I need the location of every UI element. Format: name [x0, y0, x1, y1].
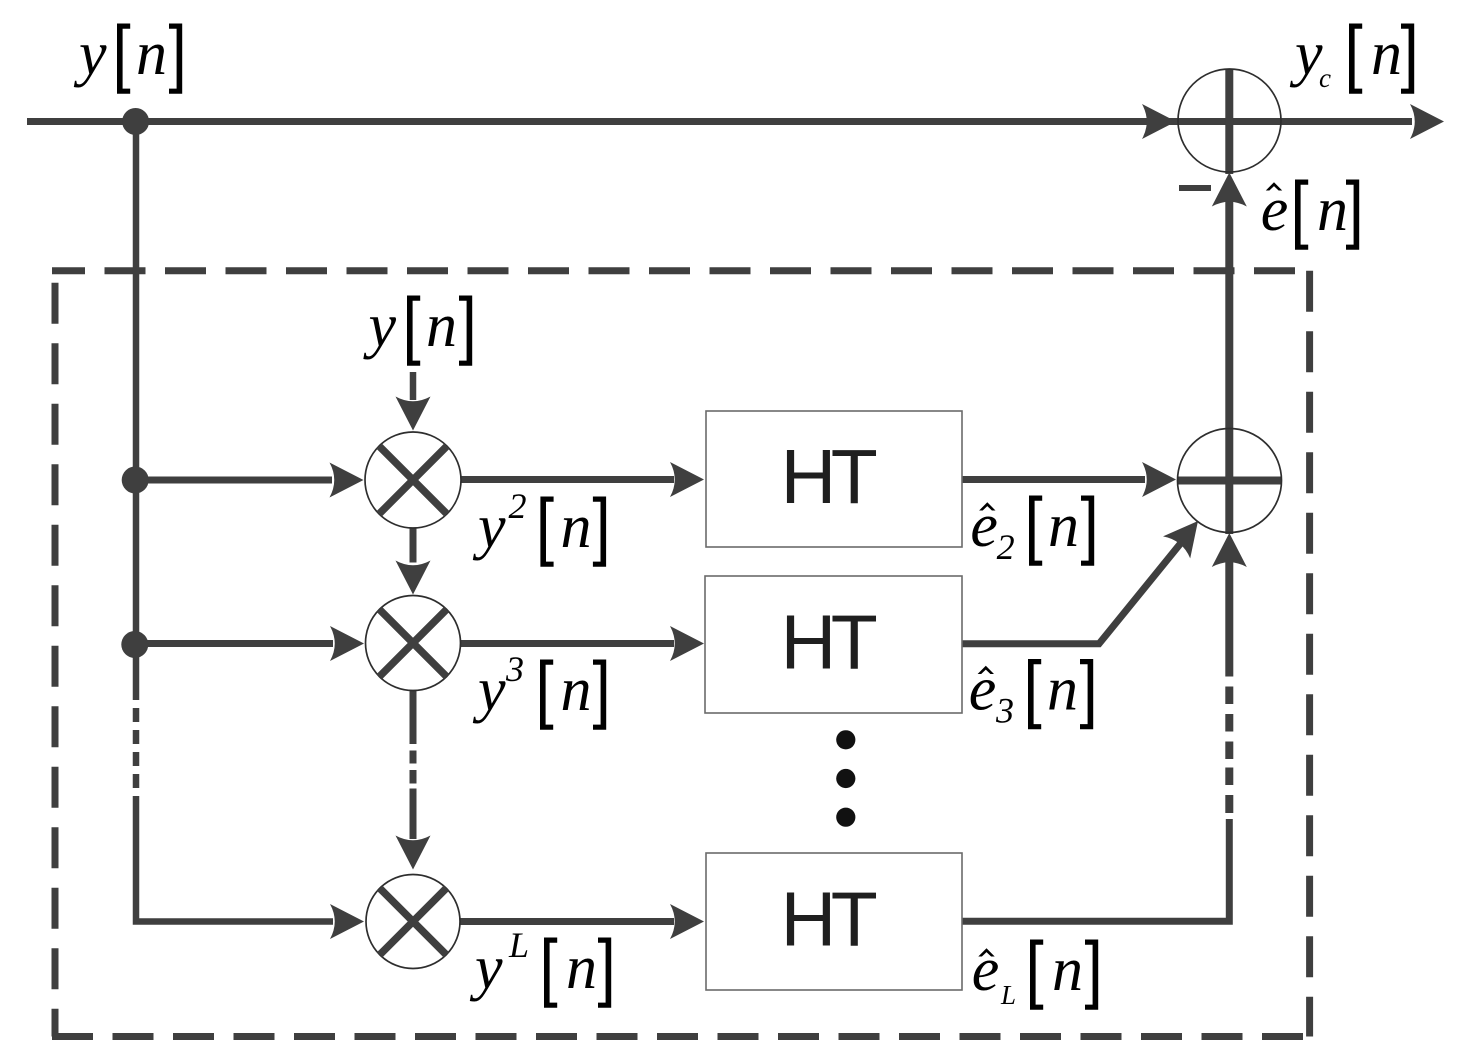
svg-text:n: n [561, 656, 592, 724]
svg-text:y: y [472, 493, 506, 561]
svg-text:y: y [1289, 20, 1323, 88]
svg-text:e: e [972, 936, 1000, 1004]
svg-text:n: n [1048, 492, 1079, 560]
svg-text:n: n [1317, 176, 1348, 244]
svg-text:y: y [472, 656, 506, 724]
svg-text:n: n [136, 20, 167, 88]
svg-text:3: 3 [995, 691, 1014, 731]
svg-text:n: n [426, 292, 457, 360]
svg-text:y: y [469, 934, 503, 1002]
svg-text:3: 3 [505, 649, 524, 689]
svg-text:e: e [970, 492, 998, 560]
svg-text:L: L [508, 925, 529, 965]
svg-text:n: n [561, 493, 592, 561]
svg-text:HT: HT [781, 434, 877, 520]
svg-text:2: 2 [509, 486, 527, 526]
svg-text:c: c [1319, 63, 1331, 93]
svg-text:n: n [1052, 936, 1083, 1004]
svg-text:HT: HT [781, 600, 877, 686]
svg-text:n: n [1047, 656, 1078, 724]
svg-text:n: n [1371, 20, 1402, 88]
svg-text:HT: HT [781, 877, 877, 963]
svg-text:n: n [566, 934, 597, 1002]
svg-text:y: y [73, 20, 107, 88]
svg-text:2: 2 [997, 527, 1015, 567]
svg-text:y: y [363, 292, 397, 360]
svg-text:L: L [1000, 980, 1016, 1010]
svg-text:e: e [969, 656, 997, 724]
